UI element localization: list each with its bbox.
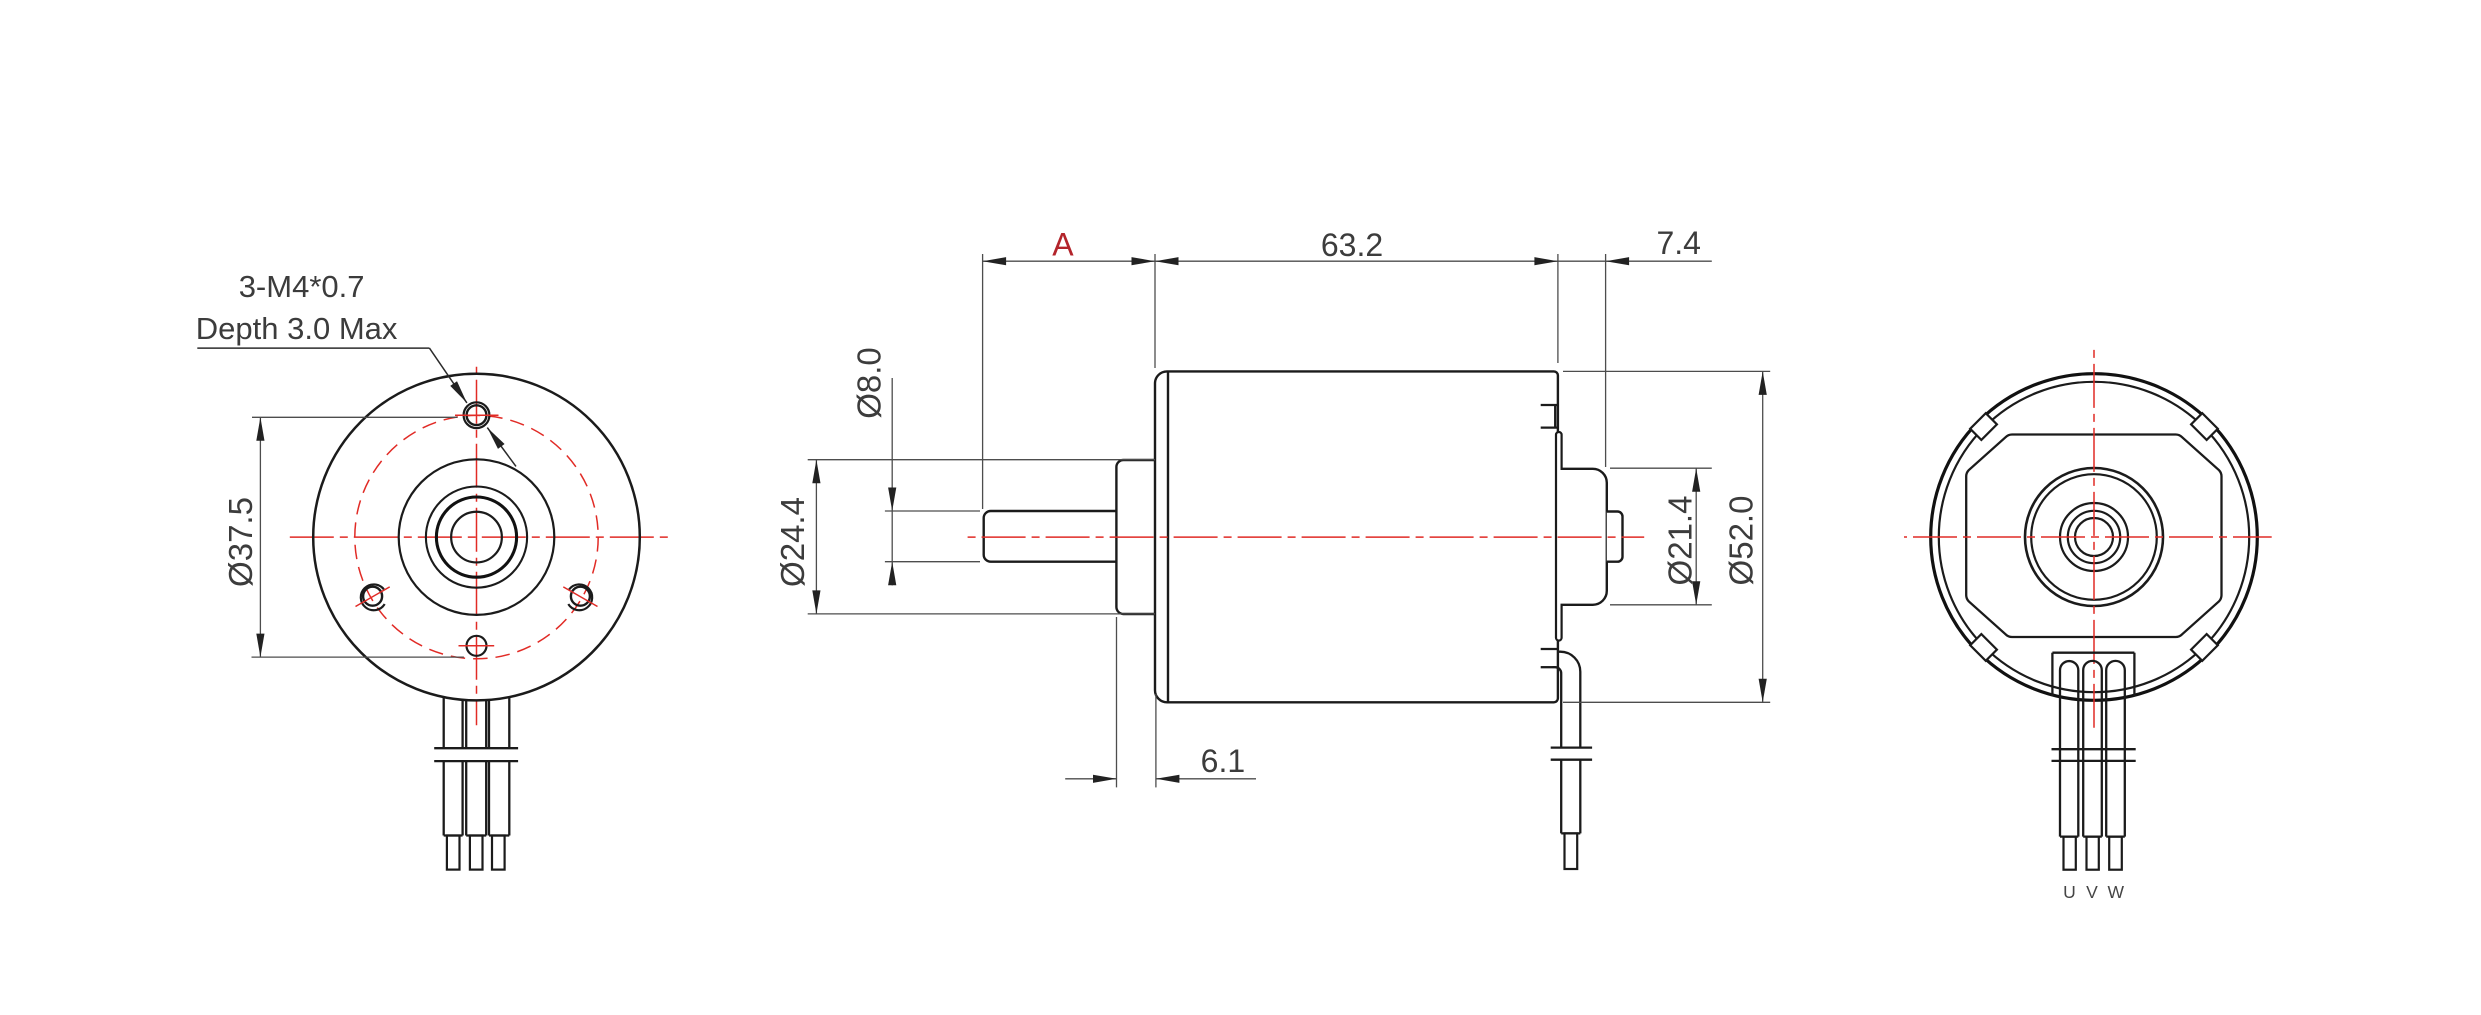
sleeve band (side)	[1551, 748, 1592, 834]
dim A	[983, 260, 1155, 262]
svg-text:63.2: 63.2	[1321, 227, 1383, 263]
dim 63.2	[1155, 260, 1558, 262]
lead wires (left view)	[434, 697, 518, 835]
svg-text:Ø24.4: Ø24.4	[774, 497, 811, 587]
rear boss inner circle	[2031, 474, 2157, 600]
dim D24.4	[808, 459, 1155, 461]
svg-text:V: V	[2086, 882, 2098, 902]
svg-text:3-M4*0.7: 3-M4*0.7	[239, 269, 365, 304]
centerline vertical (left view)	[476, 367, 478, 725]
svg-text:7.4: 7.4	[1656, 225, 1700, 261]
top tapped hole M4	[464, 402, 490, 428]
shaft step circle	[2068, 511, 2120, 563]
rear notch top	[1541, 405, 1559, 428]
housing tab lower-left	[1970, 413, 1997, 440]
wire V rear	[2083, 661, 2102, 837]
svg-text:Ø52.0: Ø52.0	[1723, 496, 1760, 586]
extension lines top dims	[808, 254, 1770, 787]
rear wire bend inner	[1553, 667, 1562, 748]
thick ring circle	[436, 497, 516, 577]
dim D21.4	[1610, 467, 1712, 469]
svg-text:A: A	[1052, 227, 1074, 263]
connector housing	[2052, 653, 2134, 696]
stator outline octagon	[1966, 435, 2221, 638]
wire V left view	[465, 700, 467, 748]
svg-text:Ø37.5: Ø37.5	[222, 497, 259, 587]
motor front outer circle	[313, 374, 640, 701]
leader 3-M4	[197, 348, 516, 466]
front plate line	[1167, 371, 1169, 702]
wires below band	[443, 761, 445, 835]
wire W rear	[2106, 661, 2125, 837]
wire end steps	[444, 834, 463, 836]
lower-right tapped hole M4	[571, 587, 590, 606]
svg-text:Ø8.0: Ø8.0	[851, 347, 888, 419]
rear notch bottom	[1541, 649, 1558, 667]
front flange circle	[399, 459, 555, 615]
rear wire bend outer	[1557, 652, 1580, 749]
wire U left view	[443, 697, 445, 748]
sleeve band left view	[434, 747, 518, 749]
centerline vertical (right view)	[2093, 349, 2095, 728]
shaft (side)	[984, 511, 1117, 562]
centerline horizontal (left view)	[284, 536, 672, 538]
rear cap rim	[1556, 432, 1562, 641]
bottom pin hole	[467, 636, 487, 656]
red tick top hole	[455, 414, 499, 416]
svg-text:Ø21.4: Ø21.4	[1662, 496, 1699, 586]
housing tab upper-right	[2191, 634, 2218, 661]
red tick lower-left hole	[356, 587, 390, 607]
dim D8.0	[885, 510, 980, 512]
sleeve band rear	[2052, 749, 2136, 836]
svg-text:Depth 3.0 Max: Depth 3.0 Max	[196, 311, 398, 346]
bolt circle (red dashed, PCD)	[355, 415, 598, 658]
centerline horizontal (right view)	[1904, 536, 2272, 538]
rear shaft nub	[1607, 512, 1623, 562]
dim 6.1	[1116, 617, 1118, 787]
red tick bottom hole	[459, 645, 495, 647]
svg-text:6.1: 6.1	[1201, 743, 1245, 779]
lower-left tapped hole M4	[363, 587, 382, 606]
svg-text:W: W	[2108, 882, 2125, 902]
bearing circle	[2060, 503, 2128, 571]
rear inner circle	[1939, 382, 2249, 692]
motor body (side)	[1155, 371, 1558, 702]
rear bearing housing (side)	[1561, 469, 1607, 605]
bearing boss circle	[426, 486, 527, 587]
housing tab upper-left	[1970, 634, 1997, 661]
terminal pin (side)	[1565, 833, 1578, 869]
shaft end circle	[2075, 518, 2113, 556]
axis centerline (middle view)	[962, 536, 1645, 538]
terminal pins rear	[2064, 837, 2122, 870]
red tick lower-right hole	[563, 587, 597, 607]
terminal pins left view	[447, 836, 505, 870]
svg-text:U: U	[2063, 882, 2076, 902]
rear outer circle	[1931, 374, 2258, 701]
shaft circle	[451, 512, 502, 563]
housing tab lower-right	[2191, 413, 2218, 440]
wire U rear	[2060, 661, 2078, 837]
wire W left view	[488, 700, 490, 748]
dimension D37.5	[252, 417, 464, 657]
rear boss circle	[2025, 468, 2163, 606]
front boss (side)	[1116, 460, 1158, 614]
dim 7.4	[1558, 260, 1606, 262]
dim D52.0	[1563, 370, 1770, 372]
